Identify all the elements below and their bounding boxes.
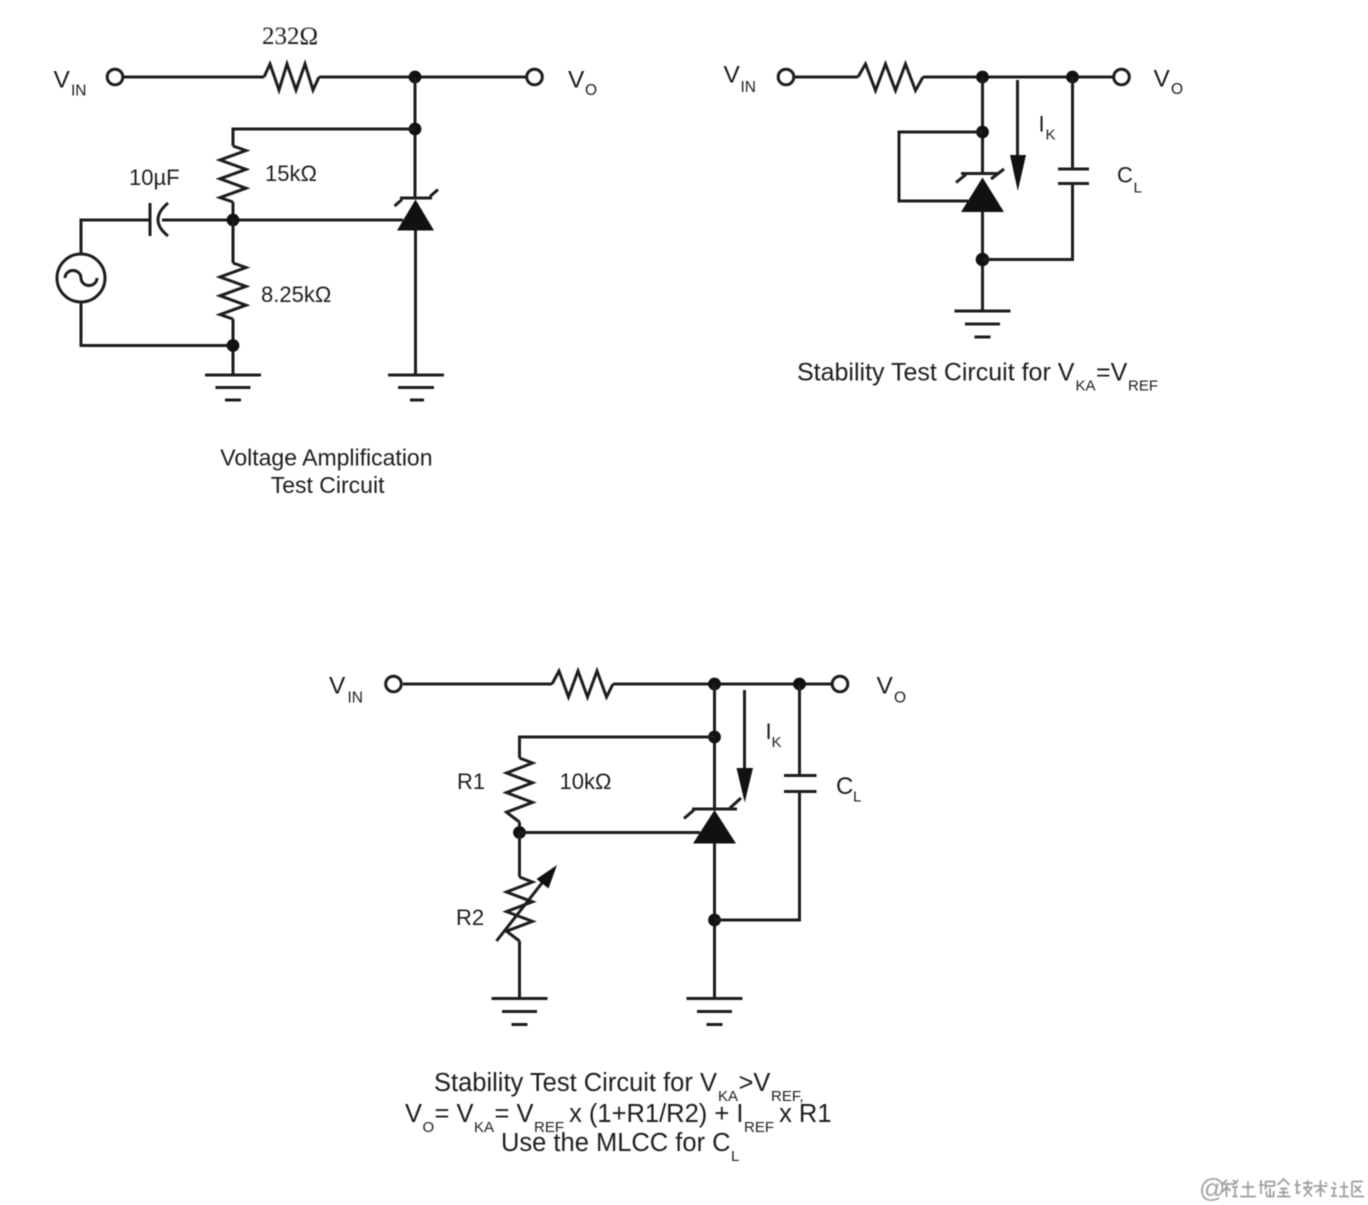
wire cathode drop (circuit 2) xyxy=(981,77,984,173)
caption circuit 2 xyxy=(797,359,1158,395)
glyph shu xyxy=(1314,1180,1328,1197)
wire source bottom xyxy=(81,304,233,346)
svg-text:L: L xyxy=(731,1148,739,1165)
svg-text:KA: KA xyxy=(474,1119,494,1136)
glyph qu xyxy=(1352,1182,1364,1197)
svg-text:K: K xyxy=(1046,127,1056,144)
resistor 15k xyxy=(220,146,246,202)
svg-text:10kΩ: 10kΩ xyxy=(560,769,612,794)
U2 anode triangle xyxy=(961,178,1004,213)
current arrow IK (circuit 3) xyxy=(737,690,754,803)
resistor 8.25k lead top xyxy=(232,220,235,263)
wire resistor to VO terminal xyxy=(319,76,526,79)
wire R1 to ref node xyxy=(518,822,521,833)
caption circuit 1 xyxy=(220,445,432,499)
svg-text:Stability Test Circuit for V: Stability Test Circuit for V xyxy=(797,359,1075,387)
junction anode node (circuit 2) xyxy=(976,253,990,267)
glyph jue xyxy=(1259,1180,1275,1197)
capacitor CL plates (circuit 3) xyxy=(784,776,817,792)
svg-text:O: O xyxy=(1171,81,1183,98)
wire ref loop top (circuit 3) xyxy=(520,737,715,758)
svg-text:R2: R2 xyxy=(456,905,484,930)
label CL (circuit 2) xyxy=(1117,163,1142,197)
glyph tu xyxy=(1240,1181,1256,1197)
svg-text:IN: IN xyxy=(348,690,364,707)
wire U1 anode to ground xyxy=(414,230,417,374)
svg-text:232Ω: 232Ω xyxy=(262,23,318,50)
terminal VO (circuit 3) xyxy=(832,676,848,692)
svg-text:Voltage Amplification: Voltage Amplification xyxy=(220,445,432,471)
svg-text:V: V xyxy=(568,67,585,94)
svg-text:V: V xyxy=(54,67,71,94)
wire resistor to VO (circuit 3) xyxy=(613,683,832,686)
junction ref node (circuit 1) xyxy=(227,214,240,227)
wire ref row xyxy=(162,219,403,222)
capacitor 10uF plate right curved xyxy=(158,203,168,236)
shunt regulator U1 cathode bar xyxy=(400,197,432,200)
wire VIN to resistor (circuit 3) xyxy=(403,683,552,686)
AC source sine xyxy=(65,271,97,286)
label IK (circuit 3) xyxy=(766,719,782,751)
label IK (circuit 2) xyxy=(1039,112,1056,144)
svg-text:x (1+R1/R2) + I: x (1+R1/R2) + I xyxy=(562,1100,743,1128)
ground G5 xyxy=(687,999,743,1025)
svg-text:>V: >V xyxy=(739,1069,771,1097)
label CL (circuit 3) xyxy=(836,773,861,806)
junction cathode node (circuit 2) xyxy=(976,71,989,84)
wire anode to CL bottom (circuit 2) xyxy=(983,184,1073,260)
svg-text:Test Circuit: Test Circuit xyxy=(271,472,385,498)
node VO label (circuit 1) xyxy=(568,67,597,100)
junction ground node (circuit 1) xyxy=(227,339,240,352)
glyph she xyxy=(1331,1182,1349,1197)
svg-text:C: C xyxy=(1117,163,1133,188)
caption circuit 3 line 3 xyxy=(501,1129,739,1165)
svg-text:=V: =V xyxy=(1096,359,1128,387)
svg-text:= V: = V xyxy=(495,1100,534,1128)
svg-text:I: I xyxy=(1039,112,1045,137)
svg-text:KA: KA xyxy=(1076,378,1096,395)
wire ref row (circuit 3) xyxy=(520,831,701,834)
svg-text:V: V xyxy=(405,1100,422,1128)
svg-text:L: L xyxy=(1134,180,1142,197)
resistor series (circuit 2) xyxy=(858,64,923,91)
AC source circle xyxy=(57,254,105,302)
wire CL top lead (circuit 3) xyxy=(798,684,801,776)
wire resistor to VO (circuit 2) xyxy=(923,76,1113,79)
node VO label (circuit 2) xyxy=(1154,66,1184,99)
resistor R1 xyxy=(507,758,533,822)
wire U2 anode to ground node xyxy=(981,211,984,310)
resistor R2 xyxy=(507,877,533,941)
wire source to capacitor xyxy=(81,220,150,253)
terminal VIN (circuit 1) xyxy=(107,69,123,85)
capacitor CL plates (circuit 2) xyxy=(1058,169,1089,184)
terminal VO (circuit 2) xyxy=(1114,69,1130,85)
svg-text:R1: R1 xyxy=(457,769,485,794)
svg-text:O: O xyxy=(585,82,597,99)
terminal VIN (circuit 3) xyxy=(386,676,402,692)
svg-text:x R1: x R1 xyxy=(772,1100,832,1128)
U3 cathode tick left xyxy=(684,810,694,819)
junction ref tie (circuit 3) xyxy=(708,731,721,744)
resistor series (circuit 3) xyxy=(552,671,613,697)
wire R1R2 node to R2 xyxy=(518,833,521,878)
wire ref loop (circuit 2) xyxy=(899,132,983,201)
shunt regulator U3 cathode bar xyxy=(692,808,737,811)
svg-text:V: V xyxy=(1154,66,1171,93)
wire feedback top xyxy=(233,129,415,146)
svg-text:IN: IN xyxy=(71,83,87,100)
wire VIN to resistor (circuit 2) xyxy=(795,76,858,79)
svg-text:V: V xyxy=(329,673,346,700)
svg-text:8.25kΩ: 8.25kΩ xyxy=(261,282,331,307)
glyph jin xyxy=(1277,1179,1291,1197)
wire R2 to ground xyxy=(518,941,521,998)
U1 cathode tick right xyxy=(430,190,438,197)
ground G4 xyxy=(492,999,548,1025)
svg-text:V: V xyxy=(724,62,741,89)
glyph ji xyxy=(1295,1180,1313,1197)
node VIN label (circuit 1) xyxy=(54,67,87,100)
watermark @juejin community xyxy=(1199,1173,1364,1203)
wire CL top lead (circuit 2) xyxy=(1071,77,1074,169)
svg-text:= V: = V xyxy=(435,1100,474,1128)
junction feedback node (circuit 1) xyxy=(409,123,422,136)
glyph xi xyxy=(1222,1180,1238,1197)
terminal VIN (circuit 2) xyxy=(778,69,794,85)
terminal VO (circuit 1) xyxy=(527,69,543,85)
svg-text:O: O xyxy=(894,690,906,707)
junction ref tie (circuit 2) xyxy=(976,126,989,139)
U3 anode triangle xyxy=(693,810,736,844)
junction R1 R2 node xyxy=(513,826,526,839)
shunt regulator U2 cathode bar xyxy=(961,172,999,175)
R2 arrow head xyxy=(537,865,558,889)
capacitor 10uF plate left xyxy=(149,203,152,236)
ground G1 xyxy=(205,375,261,400)
svg-text:K: K xyxy=(772,734,782,751)
svg-text:C: C xyxy=(836,773,853,800)
junction top node (circuit 1) xyxy=(409,71,422,84)
U3 cathode tick right xyxy=(730,798,741,808)
caption circuit 3 line 2 xyxy=(405,1100,832,1136)
U2 cathode tick left xyxy=(956,175,966,183)
wire cathode drop xyxy=(414,77,417,197)
current arrow IK (circuit 2) xyxy=(1010,80,1026,191)
wire cathode drop (circuit 3) xyxy=(713,684,716,808)
ground G3 xyxy=(955,311,1011,337)
node VIN label (circuit 3) xyxy=(329,673,363,707)
svg-text:Stability Test Circuit for V: Stability Test Circuit for V xyxy=(434,1069,717,1097)
svg-text:IN: IN xyxy=(741,79,757,96)
svg-text:@: @ xyxy=(1199,1173,1225,1203)
wire 8.25k to ground node xyxy=(232,319,235,374)
wire U3 anode to ground xyxy=(713,843,716,998)
R2 arrow line xyxy=(497,881,544,941)
svg-text:15kΩ: 15kΩ xyxy=(265,161,317,186)
svg-text:REF: REF xyxy=(1128,378,1158,395)
svg-text:10µF: 10µF xyxy=(129,165,180,190)
ground G2 xyxy=(388,375,444,400)
U2 cathode tick right xyxy=(991,169,1004,179)
junction CL node (circuit 3) xyxy=(793,678,806,691)
U1 cathode tick left xyxy=(395,200,403,207)
resistor 8.25k xyxy=(220,263,246,319)
resistor R 232 ohm xyxy=(264,64,319,90)
junction CL node (circuit 2) xyxy=(1066,71,1079,84)
svg-text:L: L xyxy=(853,789,861,806)
svg-text:O: O xyxy=(423,1119,435,1136)
svg-text:REF: REF xyxy=(744,1119,774,1136)
wire anode to CL bottom (circuit 3) xyxy=(715,792,800,920)
caption circuit 3 line 1 xyxy=(434,1069,804,1105)
U1 anode triangle xyxy=(397,200,434,231)
svg-text:V: V xyxy=(877,673,894,700)
junction cathode node (circuit 3) xyxy=(708,678,721,691)
node VIN label (circuit 2) xyxy=(724,62,757,97)
svg-text:Use the MLCC for C: Use the MLCC for C xyxy=(501,1129,731,1157)
node VO label (circuit 3) xyxy=(877,673,907,707)
wire VIN to resistor xyxy=(124,76,264,79)
wire 15k to ref node xyxy=(232,202,235,220)
junction anode node (circuit 3) xyxy=(708,914,721,927)
